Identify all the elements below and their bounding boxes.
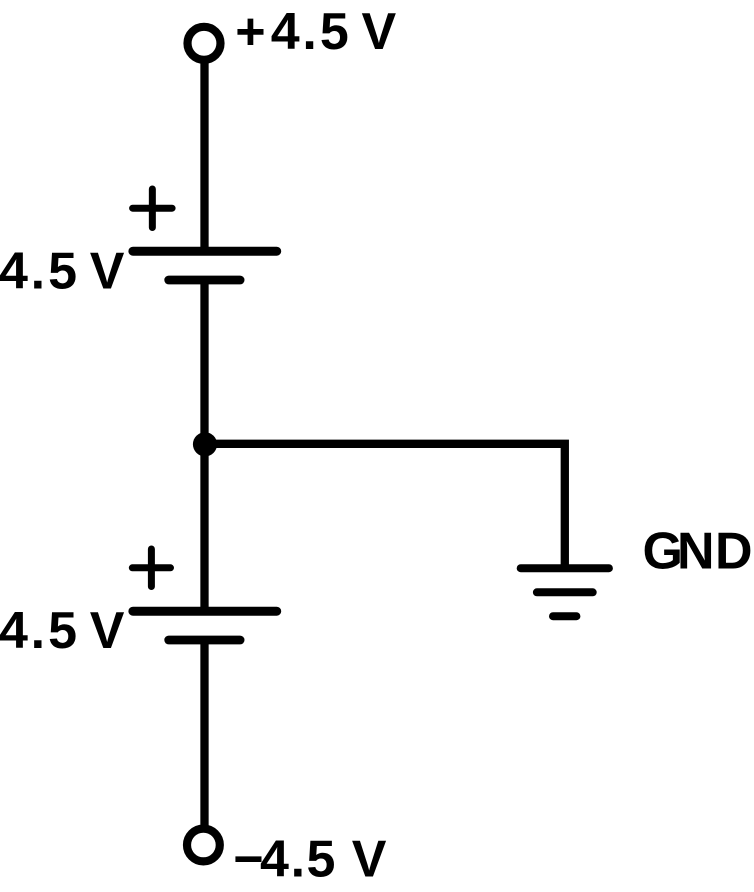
ground symbol bar 2 [537,588,593,596]
svg-text:GND: GND [643,522,753,580]
battery B1 negative plate (short) [169,276,240,285]
battery B1 positive plate (long) [133,247,277,256]
svg-text:+4.5V: +4.5V [235,3,396,61]
ground symbol bar 1 [521,564,609,572]
terminal -4.5 V (open circle) [187,829,220,862]
junction node [193,432,217,456]
svg-text:4.5V: 4.5V [0,602,125,660]
terminal +4.5 V (open circle) [188,27,221,60]
svg-text:4.5V: 4.5V [0,243,125,301]
battery B2 positive plate (long) [133,607,277,616]
battery B2 polarity mark + [132,549,170,587]
wire: center node to battery B2 positive plate [200,444,208,611]
battery B1 polarity mark + [133,189,173,228]
wire: battery B1 negative plate to center node [200,280,208,444]
wire: top terminal to battery B1 positive plate [200,45,208,251]
svg-text:−4.5V: −4.5V [233,831,386,889]
wire: center node to ground symbol (L-shaped) [205,444,565,566]
battery B2 negative plate (short) [169,636,240,645]
ground symbol bar 3 [553,612,576,620]
wire: battery B2 negative plate to bottom terminal [200,640,208,843]
